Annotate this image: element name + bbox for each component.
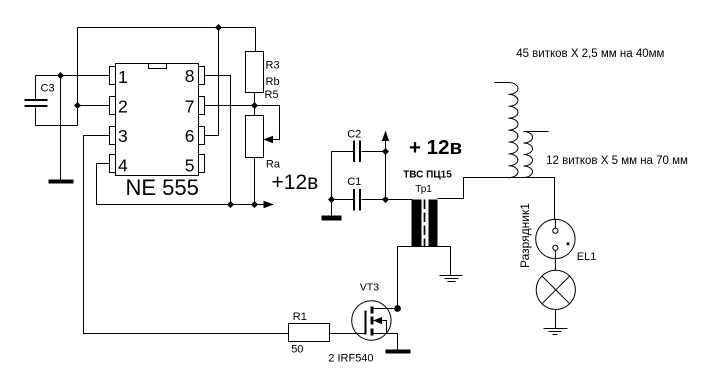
wire C1/C2 left legs to ground [331, 152, 333, 216]
svg-text:5: 5 [185, 156, 195, 176]
pin 8 [199, 67, 205, 85]
secondary winding bar [429, 200, 438, 247]
wire +12v bottom rail [97, 204, 266, 206]
svg-text:Тр1: Тр1 [415, 184, 432, 195]
resistor R3 (Rb) [246, 52, 280, 102]
svg-text:VT3: VT3 [360, 282, 379, 294]
wire Ra bottom to +12 rail [254, 158, 256, 205]
node D pin8 net on rail [227, 201, 234, 208]
body arrow [373, 317, 382, 324]
svg-text:EL1: EL1 [577, 251, 597, 263]
+12v supply arrowhead [264, 201, 275, 208]
wire pin3 output down-left loop to R1 [84, 136, 289, 334]
svg-text:R5: R5 [265, 89, 279, 101]
ground (bar, C1/C2) [322, 216, 342, 221]
lamp [536, 270, 575, 309]
inductor L2 winding 12 витков [524, 132, 549, 178]
op IC U1 NE555 body [116, 64, 199, 176]
wire pin4 to +12 bottom rail [97, 164, 110, 205]
resistor R1 [289, 311, 330, 356]
notch [149, 64, 167, 69]
node J drain junction [394, 305, 401, 312]
svg-text:12 витков Х 5 мм на 70 мм: 12 витков Х 5 мм на 70 мм [546, 155, 688, 167]
wire Ra wiper loop from node F [255, 106, 280, 140]
node H C1 left junction [328, 196, 335, 203]
wire secondary bottom to ground [450, 247, 452, 276]
node E Ra bottom on rail [251, 201, 258, 208]
ground (bar, C3) [49, 180, 74, 184]
svg-text:+ 12в: + 12в [409, 136, 462, 159]
svg-text:C3: C3 [41, 83, 55, 95]
ground (3-line, lamp) [544, 329, 568, 335]
spark gap Разрядник1 / EL1 [536, 219, 575, 270]
svg-text:NE 555: NE 555 [126, 175, 199, 200]
source lead [374, 334, 398, 351]
wire pin1 row to C3 top [36, 75, 110, 77]
wire pin6 up to top rail [205, 28, 219, 136]
node A top rail junction to pin6 [215, 24, 222, 31]
capacitor C3 [25, 76, 55, 126]
ground (bar, VT3 source) [386, 350, 411, 354]
wire C1 node to transformer primary [386, 199, 413, 201]
svg-text:2: 2 [118, 97, 128, 117]
ground (3-line, transformer) [440, 276, 463, 282]
svg-text:ТВС ПЦ15: ТВС ПЦ15 [403, 170, 452, 181]
svg-text:Ra: Ra [266, 159, 281, 171]
wire vertical left branch of pin2 net [77, 28, 79, 126]
svg-text:Rb: Rb [266, 76, 280, 88]
wire pin2 stub [78, 105, 110, 107]
wire top rail from pin2/C3 branch to pin6 and R3 top [78, 28, 256, 52]
svg-text:1: 1 [118, 67, 128, 87]
inductor L1 HV winding 45 витков [495, 83, 519, 178]
drain lead [374, 308, 398, 310]
svg-text:Разрядник1: Разрядник1 [518, 203, 532, 268]
primary winding bar [412, 200, 422, 247]
wire C3 bottom to vertical branch [36, 125, 78, 127]
svg-text:4: 4 [118, 156, 128, 176]
pin 6 [199, 127, 205, 145]
wire secondary top to HV coil bottom line [438, 178, 555, 220]
wire lamp to ground [555, 310, 557, 329]
gate bar [365, 311, 367, 335]
wire ground drop from node B [60, 76, 62, 181]
pin 3 [110, 127, 116, 145]
wire R3 bottom to node F to Ra top [254, 93, 256, 116]
svg-text:R3: R3 [266, 60, 280, 72]
node B C3 top / ground junction [57, 72, 64, 79]
capacitor C1 [332, 176, 386, 211]
svg-text:3: 3 [118, 126, 128, 146]
svg-text:R1: R1 [293, 311, 307, 323]
wire pin8 to +12 rail [205, 76, 231, 205]
wire pin7 to R3/Ra junction [205, 105, 255, 107]
wire primary bottom to VT3 drain [397, 247, 399, 309]
node G C2 right junction [382, 148, 389, 155]
pin 5 [199, 155, 205, 173]
body lead [381, 321, 387, 334]
pin 2 [110, 97, 116, 115]
node I C1 right junction [382, 196, 389, 203]
svg-text:7: 7 [185, 97, 195, 117]
pin 1 [110, 67, 116, 85]
svg-text:2 IRF540: 2 IRF540 [328, 353, 373, 365]
Ra wiper arrowhead [264, 136, 274, 143]
node C pin2 junction [74, 102, 81, 109]
node F pin7/R3/Ra junction [251, 102, 258, 109]
pin 4 [110, 155, 116, 173]
potentiometer Ra [246, 116, 281, 171]
svg-text:8: 8 [185, 66, 195, 86]
core (dashed) [424, 200, 426, 247]
wire R1 to VT3 gate [330, 333, 366, 335]
svg-text:+12в: +12в [272, 171, 319, 194]
capacitor C2 [332, 129, 386, 163]
transistor VT3 IRF540 [352, 301, 398, 351]
svg-text:45 витков Х 2,5 мм на 40мм: 45 витков Х 2,5 мм на 40мм [516, 48, 664, 60]
svg-text:C2: C2 [347, 129, 361, 141]
wire bottom joining bar [398, 246, 451, 248]
transformer Tr1 [398, 200, 451, 247]
pin 7 [199, 97, 205, 115]
svg-text:C1: C1 [347, 176, 361, 188]
channel segments [371, 307, 374, 336]
wire arrow stem down through C2/C1 nodes [385, 141, 387, 200]
+12 feed up-arrow [382, 131, 389, 142]
svg-text:6: 6 [185, 126, 195, 146]
svg-text:50: 50 [291, 344, 303, 356]
